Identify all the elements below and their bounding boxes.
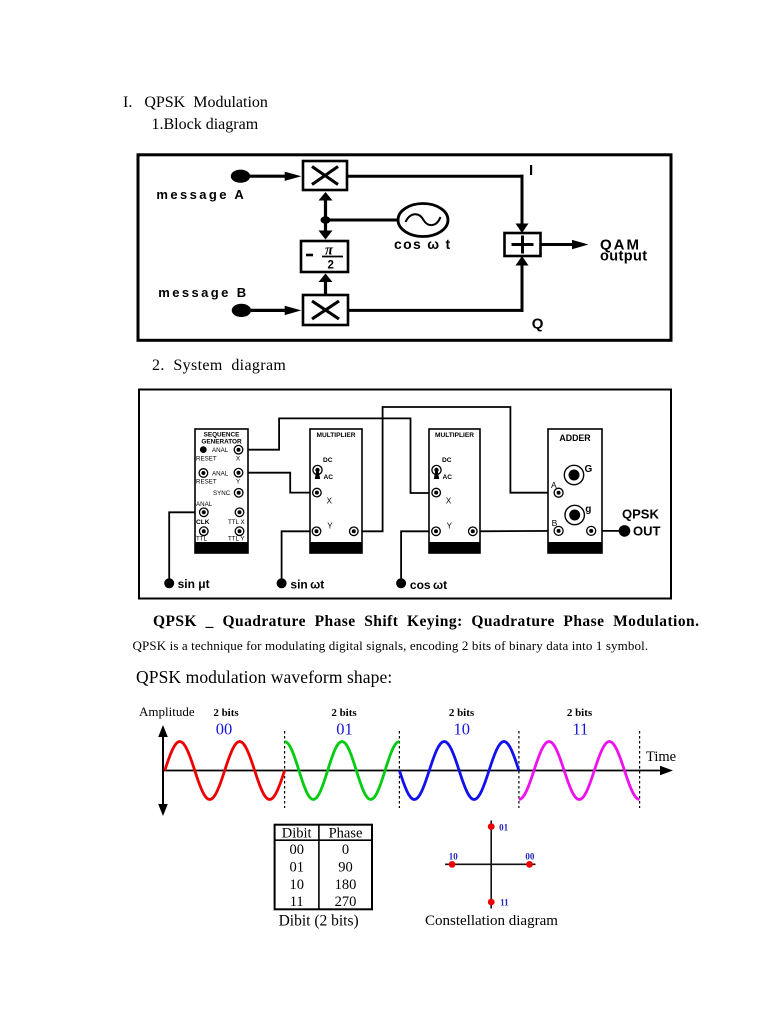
red sine wave 00 [165, 742, 285, 800]
label 11 [500, 897, 509, 907]
wire I down to adder [516, 175, 529, 233]
point 01 [488, 823, 495, 830]
constellation horizontal axis [445, 863, 535, 865]
adder U1 [505, 233, 541, 256]
table row 11 [290, 894, 357, 910]
label cos wt [410, 578, 447, 592]
label 01 [336, 720, 353, 739]
svg-text:X: X [236, 456, 240, 463]
svg-text:g: g [585, 504, 591, 515]
point 00 [526, 861, 533, 868]
label 10 [449, 851, 459, 861]
label message B [158, 285, 248, 300]
heading waveform shape [136, 667, 392, 688]
heading QPSK definition [153, 613, 699, 631]
separator dashed 4 [639, 731, 641, 808]
label Constellation diagram [425, 913, 558, 930]
table frame [275, 825, 372, 910]
svg-text:00: 00 [289, 842, 304, 858]
svg-text:TTL: TTL [196, 536, 208, 543]
separator dashed 2 [398, 731, 400, 808]
waveform chart [130, 695, 700, 825]
label cos w t [394, 236, 452, 252]
constellation vertical axis [490, 821, 492, 909]
label Q [532, 315, 544, 332]
svg-text:TTL X: TTL X [228, 519, 245, 526]
heading 1.Block diagram [152, 116, 259, 134]
wire Q up to adder [516, 256, 529, 312]
wire adder out to QPSK OUT [591, 530, 624, 532]
multiplier M2 [303, 295, 348, 325]
svg-text:01: 01 [336, 720, 353, 739]
amplitude axis [158, 725, 168, 816]
wire M1 out to adder A [354, 407, 557, 531]
svg-text:11: 11 [572, 720, 588, 739]
table row 10 [289, 877, 356, 893]
label QPSK OUT [622, 507, 661, 539]
wire message A to multiplier [248, 172, 301, 181]
frame [138, 155, 671, 340]
svg-text:2: 2 [328, 260, 334, 272]
svg-text:RESET: RESET [196, 456, 217, 463]
table caption Dibit (2 bits) [279, 913, 359, 930]
module sequence generator [195, 429, 248, 553]
svg-text:message A: message A [156, 187, 246, 202]
constellation diagram [440, 818, 570, 913]
oscillator cos [398, 204, 448, 237]
table header divider [275, 839, 372, 841]
svg-text:AC: AC [324, 474, 334, 481]
svg-text:Time: Time [646, 749, 676, 765]
wire M1 to junction double arrow up [319, 192, 333, 220]
svg-text:Q: Q [532, 315, 544, 332]
svg-text:sin μt: sin μt [178, 577, 210, 591]
dibit phase table [272, 822, 382, 932]
svg-text:QPSK: QPSK [622, 507, 659, 522]
wire adder to output [541, 240, 589, 249]
svg-text:CLK: CLK [196, 519, 210, 526]
wire M2 out to adder B [473, 530, 557, 532]
svg-text:SYNC: SYNC [213, 490, 231, 497]
svg-text:11: 11 [290, 894, 304, 910]
svg-text:AC: AC [443, 474, 453, 481]
module adder [548, 429, 602, 553]
svg-text:message B: message B [158, 285, 248, 300]
svg-text:10: 10 [453, 720, 470, 739]
wire SEQ X to M2 X [239, 418, 435, 493]
label 2 bits 2 [331, 707, 357, 719]
svg-text:ANAL: ANAL [212, 447, 229, 454]
svg-text:DC: DC [442, 457, 452, 464]
label 10 [453, 720, 470, 739]
point 10 [449, 861, 456, 868]
node sin ut terminal [164, 578, 174, 588]
table row 00 [289, 842, 349, 858]
svg-text:90: 90 [338, 860, 353, 876]
svg-text:ANAL: ANAL [196, 501, 213, 508]
module multiplier 2 [429, 429, 480, 553]
svg-text:00: 00 [216, 720, 233, 739]
svg-text:Y: Y [327, 522, 333, 531]
wire multiplier M1 to I corner [347, 175, 524, 178]
svg-text:OUT: OUT [633, 524, 661, 539]
table row 01 [289, 860, 352, 876]
blue sine wave 10 [399, 742, 519, 800]
node message A input dot [231, 170, 250, 183]
svg-text:11: 11 [500, 897, 509, 907]
svg-text:01: 01 [289, 860, 304, 876]
svg-text:Amplitude: Amplitude [139, 704, 195, 719]
node cos wt terminal [396, 578, 406, 588]
separator dashed 1 [284, 731, 286, 808]
wire SEQ Y to M1 X [239, 473, 316, 493]
label QAM output [600, 236, 648, 264]
svg-text:X: X [327, 497, 333, 506]
label 00 [216, 720, 233, 739]
point 11 [488, 899, 495, 906]
svg-text:0: 0 [342, 842, 349, 858]
svg-text:Y: Y [236, 479, 240, 486]
svg-text:2 bits: 2 bits [213, 707, 239, 719]
svg-text:MULTIPLIER: MULTIPLIER [316, 432, 355, 439]
svg-text:RESET: RESET [196, 479, 217, 486]
svg-text:SEQUENCE: SEQUENCE [204, 432, 241, 439]
svg-text:2 bits: 2 bits [331, 707, 357, 719]
svg-text:sin ωt: sin ωt [290, 578, 324, 592]
label sin wt [290, 578, 324, 592]
label Amplitude [139, 704, 195, 719]
label 11 [572, 720, 588, 739]
table column divider [318, 825, 320, 910]
phase shifter -pi/2 [301, 241, 348, 272]
label 2 bits 4 [567, 707, 593, 719]
wire M2 up to phase shifter arrow [319, 274, 333, 296]
svg-text:01: 01 [499, 823, 509, 833]
block diagram [136, 151, 673, 343]
svg-text:00: 00 [525, 851, 535, 861]
heading 2. System diagram [152, 357, 286, 375]
magenta sine wave 11 [519, 742, 640, 800]
node QPSK OUT terminal [619, 525, 631, 537]
wire junction to oscillator [326, 219, 399, 222]
heading I. QPSK Modulation [123, 94, 268, 112]
separator dashed 3 [518, 731, 520, 808]
svg-text:cos ωt: cos ωt [410, 578, 447, 592]
svg-text:2 bits: 2 bits [449, 707, 475, 719]
svg-text:G: G [585, 464, 593, 475]
label 01 [499, 823, 509, 833]
svg-text:ADDER: ADDER [559, 433, 591, 443]
wire junction to phase shifter arrow down [319, 220, 333, 240]
svg-text:X: X [446, 497, 452, 506]
svg-text:Dibit: Dibit [282, 825, 312, 841]
wire M2 to Q corner [348, 309, 524, 312]
node junction [321, 216, 331, 223]
multiplier M1 [303, 161, 347, 190]
label 00 [525, 851, 535, 861]
svg-text:ANAL: ANAL [212, 471, 229, 478]
svg-text:TTL Y: TTL Y [228, 536, 245, 543]
svg-text:MULTIPLIER: MULTIPLIER [435, 432, 474, 439]
svg-text:2 bits: 2 bits [567, 707, 593, 719]
system diagram [138, 388, 672, 600]
label Time [646, 749, 676, 765]
svg-text:10: 10 [289, 877, 304, 893]
svg-text:output: output [600, 249, 648, 265]
node message B input dot [232, 304, 251, 317]
svg-text:DC: DC [323, 457, 333, 464]
svg-text:I: I [529, 162, 533, 179]
svg-text:Phase: Phase [329, 825, 363, 841]
wire cos wt to M2 Y [401, 531, 434, 581]
wire sin wt to M1 Y [282, 531, 315, 581]
wire sin ut to SEQ CLK [169, 512, 202, 581]
time axis [163, 766, 673, 776]
svg-text:Y: Y [447, 522, 453, 531]
label I [529, 162, 533, 179]
svg-text:GENERATOR: GENERATOR [201, 439, 242, 446]
label message A [156, 187, 246, 202]
node sin wt terminal [277, 578, 287, 588]
paragraph QPSK description [133, 638, 649, 654]
svg-text:Dibit (2 bits): Dibit (2 bits) [279, 913, 359, 930]
module multiplier 1 [310, 429, 362, 553]
green sine wave 01 [285, 742, 400, 800]
frame [139, 390, 671, 599]
wire message B to multiplier [249, 306, 301, 315]
svg-text:10: 10 [449, 851, 459, 861]
label sin ut [178, 577, 210, 591]
label 2 bits 3 [449, 707, 475, 719]
svg-text:180: 180 [335, 877, 357, 893]
table header row [282, 825, 363, 841]
label 2 bits 1 [213, 707, 239, 719]
svg-text:270: 270 [335, 894, 357, 910]
svg-text:cos ω t: cos ω t [394, 236, 452, 252]
